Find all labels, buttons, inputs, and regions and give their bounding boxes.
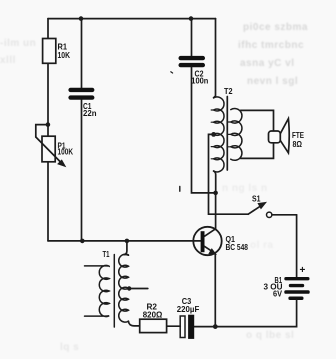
potentiometer P1: [42, 136, 55, 162]
switch S1: [248, 203, 296, 218]
faint print bleed-through, decorative: [243, 22, 308, 33]
node top rail / C2: [189, 16, 194, 21]
svg-text:8Ω: 8Ω: [293, 140, 303, 149]
svg-text:220µF: 220µF: [177, 305, 200, 314]
svg-text:6V: 6V: [273, 289, 282, 298]
battery B1: [284, 277, 309, 300]
transformer T1 secondary winding: [119, 254, 129, 322]
wire speaker bottom lead: [241, 143, 274, 159]
wire P1 wiper arrow: [36, 137, 61, 162]
transformer T2 core: [226, 97, 228, 171]
wire T2 primary bottom lead: [214, 171, 216, 193]
node emitter / bottom rail: [213, 324, 218, 329]
svg-text:S1: S1: [252, 195, 261, 204]
node T2 centre tap: [211, 132, 216, 137]
print speck artifact 2: [171, 72, 173, 73]
capacitor C3: [167, 315, 195, 339]
node base rail / C1: [80, 239, 85, 244]
node T1 centre tap: [127, 286, 131, 290]
speaker FTE driver: [269, 131, 281, 143]
node collector / C2: [213, 191, 218, 196]
node base rail / T1: [125, 239, 130, 244]
resistor R2: [140, 319, 167, 332]
wire collector riser: [215, 193, 217, 229]
wire T1 tap stub: [129, 288, 148, 290]
print speck artifact: [179, 186, 181, 191]
svg-text:22n: 22n: [83, 109, 97, 118]
wire emitter drop: [214, 254, 216, 327]
transformer T1 core: [113, 255, 115, 328]
node junction R1/P1: [46, 122, 51, 127]
svg-text:10K: 10K: [58, 51, 71, 60]
wire S1 to battery: [296, 215, 298, 277]
transformer T1 secondary top lead: [124, 241, 129, 255]
svg-text:820Ω: 820Ω: [143, 310, 163, 319]
wire battery to bottom rail: [215, 300, 296, 327]
wire bottom rail to C3: [194, 326, 215, 328]
speaker FTE cone: [280, 119, 289, 153]
capacitor C1: [68, 19, 94, 241]
svg-text:R1: R1: [58, 42, 68, 51]
svg-text:BC 548: BC 548: [226, 243, 249, 252]
wire T2 centre tap to S1: [209, 134, 249, 214]
wire speaker top lead: [241, 110, 274, 131]
svg-text:100K: 100K: [58, 148, 74, 157]
svg-text:+: +: [300, 265, 306, 276]
wire P1 wiper link: [36, 125, 48, 137]
wire T1 secondary bottom to R2: [128, 321, 139, 326]
wire base rail: [48, 240, 201, 242]
resistor R1: [43, 39, 56, 64]
wire left vertical (R1 branch): [47, 19, 49, 241]
transistor Q1: [193, 227, 221, 255]
transformer T2 secondary winding: [231, 108, 242, 160]
wire T2 primary top lead: [214, 19, 216, 98]
node top rail / C1: [79, 16, 84, 21]
transformer T1 primary winding: [85, 266, 110, 317]
svg-text:FTE: FTE: [292, 131, 304, 140]
svg-text:T1: T1: [103, 250, 110, 259]
svg-text:100n: 100n: [191, 77, 208, 86]
transformer T2 primary winding: [214, 97, 224, 172]
capacitor C2: [179, 19, 216, 193]
wire top rail: [48, 18, 216, 20]
svg-text:T2: T2: [224, 87, 233, 96]
